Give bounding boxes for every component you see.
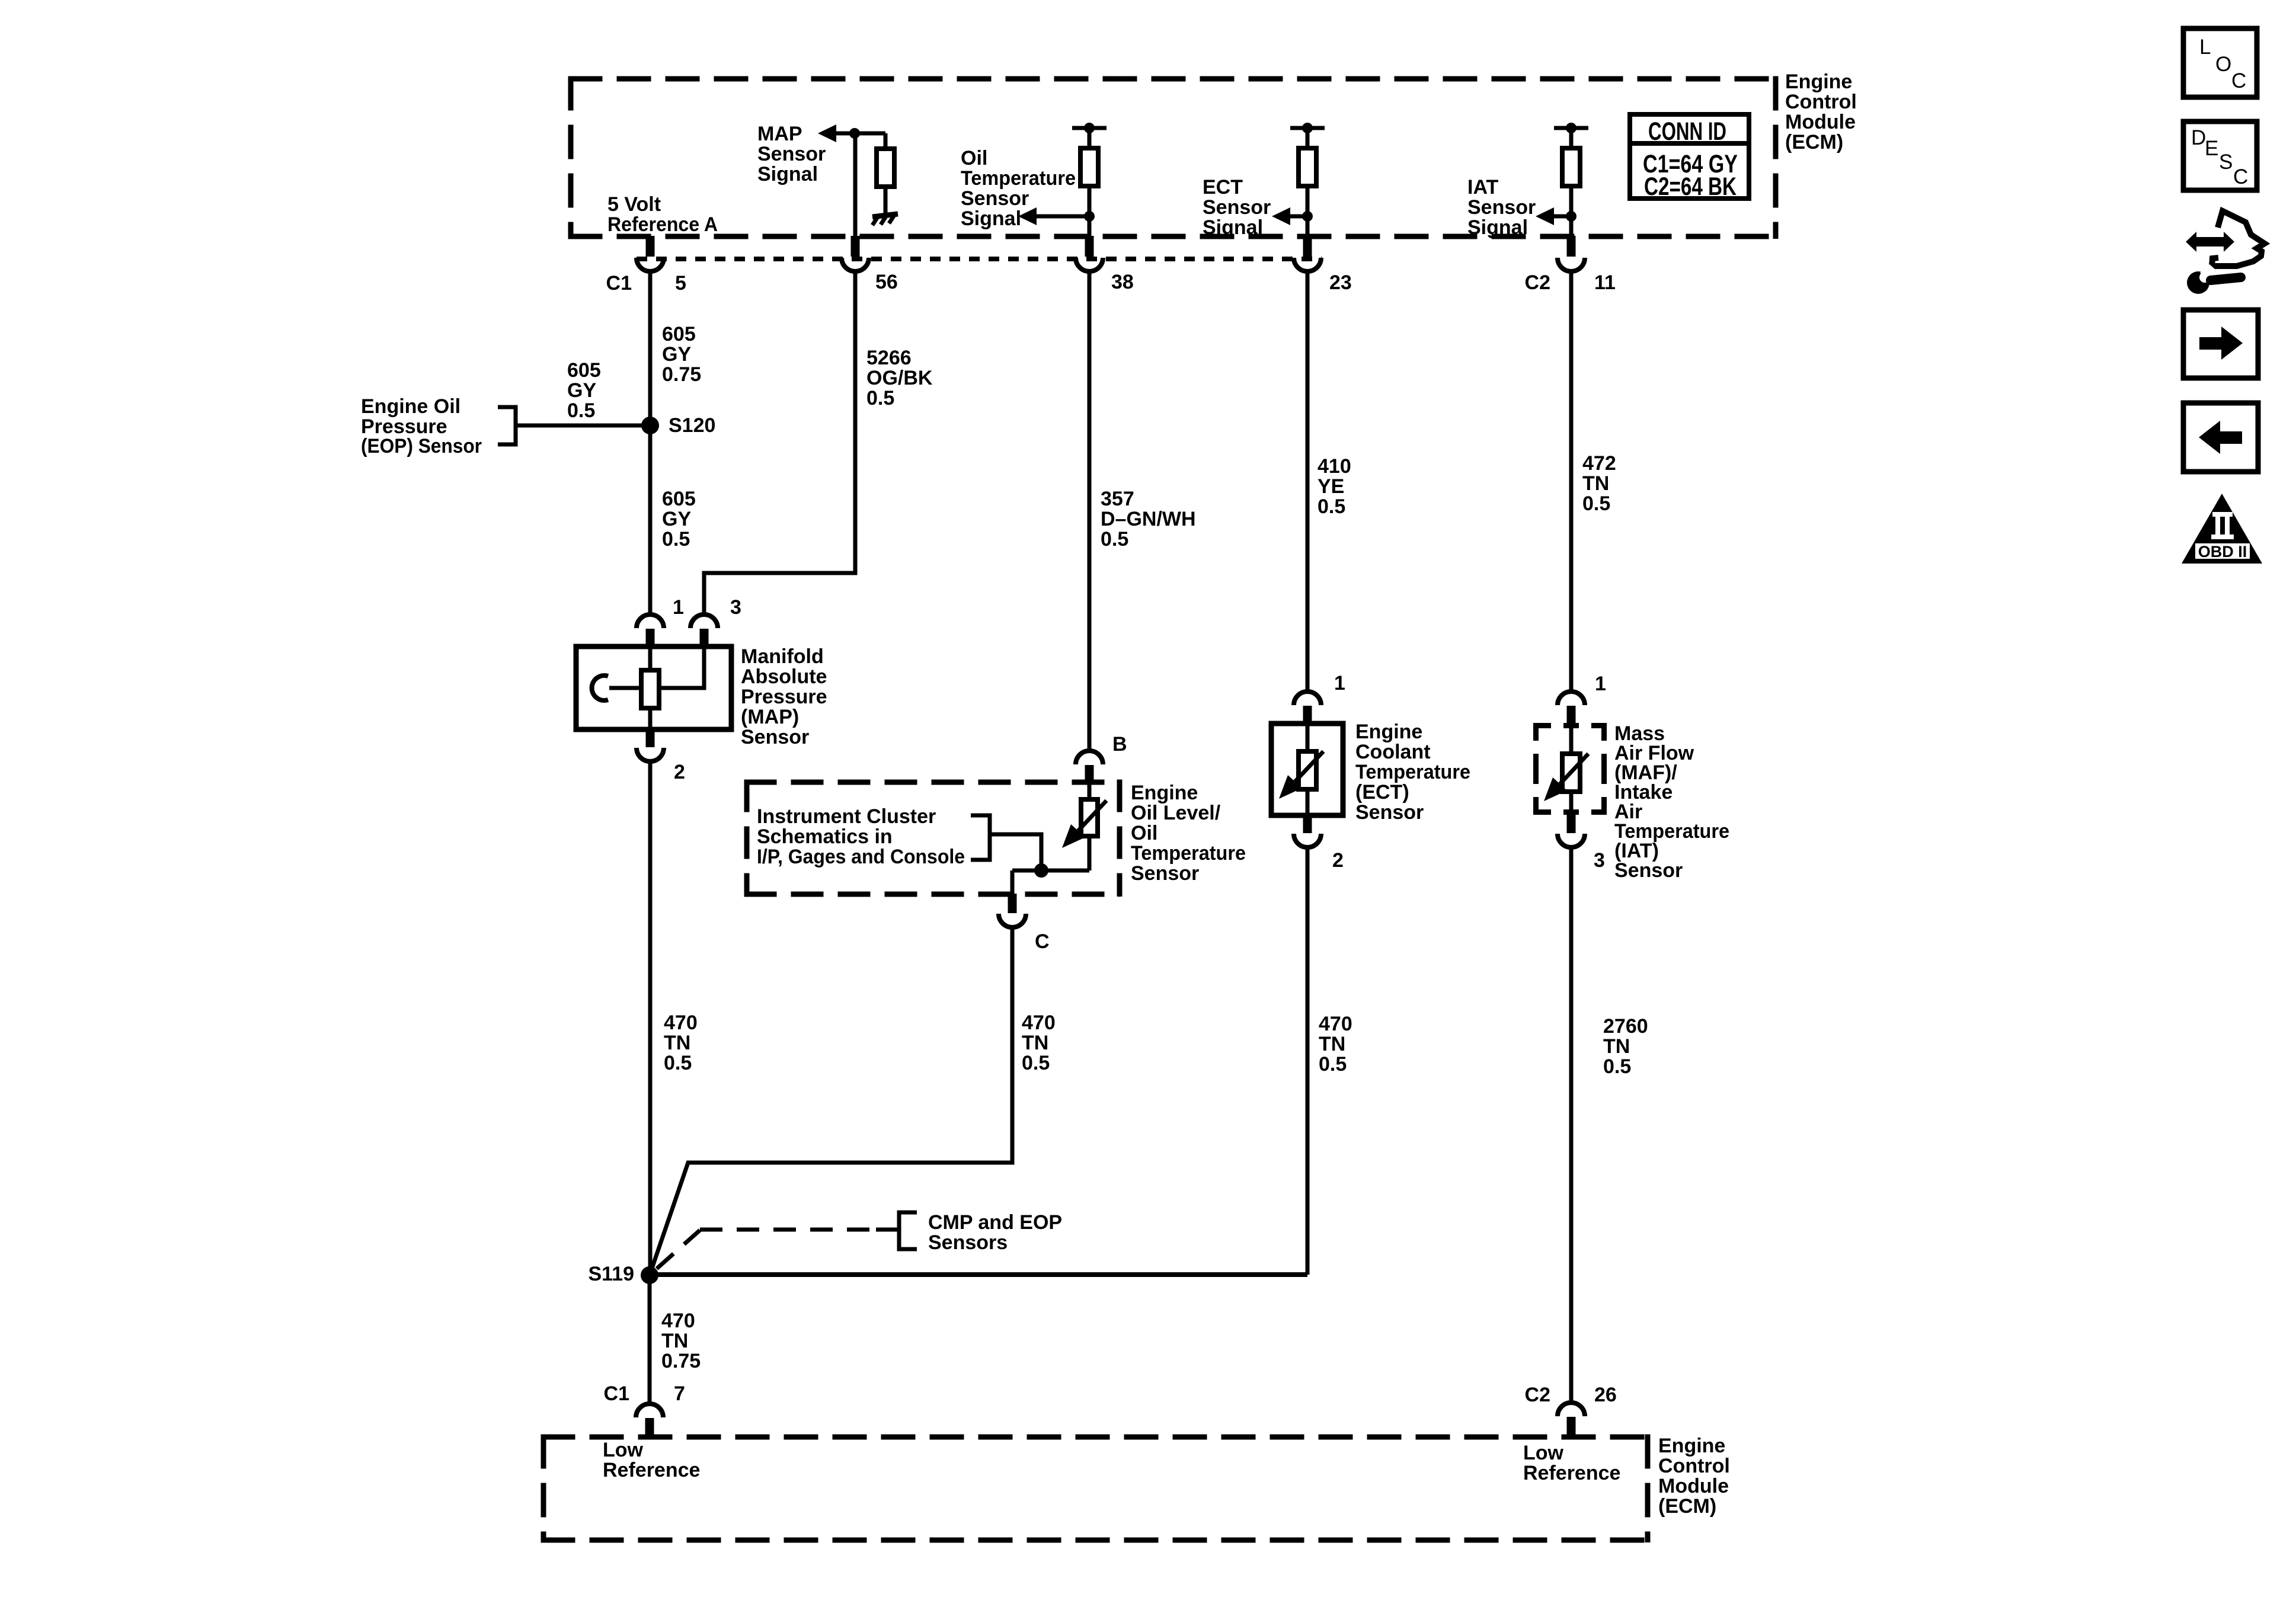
wire: IAT pin 11 vertical [1569, 186, 1574, 237]
svg-text:Engine: Engine [1355, 721, 1422, 743]
svg-text:7: 7 [674, 1382, 685, 1405]
MAF arrowhead [1544, 777, 1567, 801]
svg-text:0.5: 0.5 [1022, 1052, 1050, 1074]
wire: bar to resistor [1088, 128, 1092, 148]
svg-text:Sensor: Sensor [1614, 859, 1683, 882]
C1 connector dotted line [637, 257, 1322, 261]
bracket: EOP sensor [498, 407, 516, 444]
svg-text:C2=64 BK: C2=64 BK [1644, 172, 1737, 201]
svg-text:GY: GY [662, 343, 691, 366]
svg-text:Absolute: Absolute [741, 665, 827, 688]
svg-text:Control: Control [1658, 1455, 1730, 1477]
svg-text:CONN ID: CONN ID [1648, 117, 1726, 146]
svg-text:(EOP) Sensor: (EOP) Sensor [361, 435, 482, 457]
svg-text:605: 605 [662, 488, 696, 510]
C2-26 pin stub [1567, 1417, 1576, 1436]
svg-text:5266: 5266 [866, 347, 912, 369]
svg-text:2760: 2760 [1603, 1015, 1648, 1038]
ECT pin 2 stub [1303, 815, 1312, 833]
CONN ID table [1630, 114, 1749, 199]
svg-text:2: 2 [674, 761, 685, 783]
svg-text:470: 470 [661, 1310, 695, 1332]
svg-text:D: D [2191, 126, 2206, 149]
wire: junction horizontal [1012, 869, 1089, 873]
svg-text:IAT: IAT [1467, 176, 1498, 199]
svg-text:TN: TN [1319, 1033, 1345, 1055]
svg-text:0.5: 0.5 [1318, 495, 1345, 518]
wire: ECT pin 2 down to S119 level [1306, 847, 1310, 1275]
MAP pin stubs [650, 629, 704, 747]
svg-text:605: 605 [567, 359, 601, 382]
svg-text:56: 56 [875, 271, 898, 293]
svg-text:Oil: Oil [1131, 822, 1157, 844]
icon: left arrow box [2183, 403, 2258, 472]
svg-text:MAP: MAP [757, 123, 802, 145]
wire: S119 horizontal to ECT column [650, 1272, 1307, 1277]
svg-text:C1: C1 [604, 1382, 629, 1405]
MAP pin 1 cup [637, 614, 664, 628]
MAF pin 1 stub [1567, 706, 1576, 724]
svg-text:0.5: 0.5 [866, 387, 894, 409]
svg-text:L: L [2199, 36, 2211, 59]
MAP pin 2 cup [637, 748, 664, 761]
svg-text:410: 410 [1318, 455, 1351, 478]
node S120 [641, 417, 659, 434]
wire: B stub to thermistor [1088, 784, 1092, 799]
svg-text:1: 1 [1334, 672, 1345, 694]
oil sensor pin B cup [1076, 751, 1103, 764]
wire: port to resistor [609, 686, 641, 690]
ECT channel: 5V bar [1290, 126, 1325, 130]
MAP sensor box [576, 646, 731, 729]
icon: LOC box [2183, 28, 2257, 97]
wire: oil temp pin 38 vertical [1088, 186, 1092, 237]
svg-text:OBD II: OBD II [2198, 543, 2247, 561]
svg-text:Sensor: Sensor [961, 187, 1029, 210]
wire: pin 11 down to MAF pin 1 [1569, 272, 1574, 692]
MAF pin 3 cup [1558, 834, 1585, 847]
svg-text:GY: GY [662, 508, 691, 530]
MAF pin 3 stub [1567, 814, 1576, 833]
node: ECT bar junction [1302, 123, 1313, 133]
svg-text:Reference: Reference [603, 1459, 700, 1481]
svg-text:C1: C1 [606, 272, 632, 295]
MAP pin 3 cup [690, 614, 718, 628]
wire: pin3 inside box down to element [659, 647, 704, 688]
resistor: ECT pull-up [1299, 148, 1316, 186]
wire: ECT signal line [1289, 215, 1307, 219]
pin stubs ECM top [650, 236, 1571, 257]
resistor: IAT pull-up [1562, 148, 1580, 186]
wire: ECT resistor to box bottom [1306, 789, 1310, 815]
C1-7 pin stub [645, 1418, 654, 1436]
wire: bar to resistor [1306, 128, 1310, 148]
wire: MAF resistor to pin 3 [1569, 792, 1574, 814]
svg-text:(ECM): (ECM) [1658, 1495, 1716, 1518]
arrowhead: ECT sensor signal [1272, 207, 1290, 225]
svg-text:C: C [1035, 930, 1050, 953]
svg-text:5: 5 [675, 272, 686, 295]
bracket: instrument cluster [971, 815, 990, 860]
icon: hotline (car with arrow and wrench) [2186, 211, 2265, 294]
svg-text:Control: Control [1785, 91, 1857, 113]
wire: 5V ref column C1-5 down [648, 270, 653, 614]
svg-text:Schematics in: Schematics in [757, 825, 893, 848]
svg-text:0.5: 0.5 [664, 1052, 692, 1074]
wire: resistor to ground [884, 187, 888, 213]
svg-text:470: 470 [1022, 1012, 1056, 1034]
svg-text:Engine: Engine [1785, 71, 1852, 93]
svg-text:Oil Level/: Oil Level/ [1131, 802, 1221, 824]
resistor: oil temp pull-up [1080, 148, 1098, 186]
wire: MAP signal arrow line [834, 132, 885, 136]
node: ECT signal junction [1302, 211, 1313, 222]
svg-text:Coolant: Coolant [1355, 741, 1431, 763]
svg-text:Instrument Cluster: Instrument Cluster [757, 805, 936, 828]
wire: pin 38 down to oil sensor B [1088, 270, 1092, 751]
svg-text:0.5: 0.5 [1582, 492, 1610, 515]
svg-text:Signal: Signal [757, 163, 818, 185]
IAT channel: 5V bar [1554, 126, 1588, 130]
svg-text:0.5: 0.5 [1101, 528, 1128, 550]
svg-text:Engine: Engine [1131, 782, 1198, 804]
svg-text:1: 1 [1595, 673, 1606, 695]
svg-text:0.5: 0.5 [662, 528, 690, 550]
bracket: CMP and EOP sensors [899, 1212, 917, 1249]
svg-text:470: 470 [1319, 1013, 1352, 1035]
thermistor diagonal line [1078, 801, 1107, 831]
svg-text:3: 3 [730, 596, 741, 619]
arrowhead: MAP sensor signal [818, 124, 836, 142]
svg-text:ECT: ECT [1203, 176, 1243, 199]
svg-text:472: 472 [1582, 452, 1616, 475]
svg-text:0.5: 0.5 [1603, 1055, 1631, 1078]
svg-text:Pressure: Pressure [741, 686, 827, 708]
wire: bar to resistor [1569, 128, 1574, 148]
svg-text:Signal: Signal [961, 207, 1021, 230]
svg-text:38: 38 [1111, 271, 1134, 293]
node: IAT signal junction [1566, 211, 1576, 222]
svg-text:(ECM): (ECM) [1785, 131, 1843, 153]
node: oil sensor junction [1034, 863, 1048, 878]
svg-text:1: 1 [673, 596, 684, 619]
svg-text:TN: TN [1582, 472, 1609, 495]
svg-text:TN: TN [1603, 1035, 1630, 1058]
pin cups ECM top [637, 258, 1585, 271]
svg-text:S: S [2219, 151, 2233, 174]
dashed box: instrument cluster / oil level sensor [744, 780, 1120, 897]
ECT arrowhead [1279, 775, 1302, 799]
svg-text:Low: Low [603, 1439, 644, 1461]
svg-text:GY: GY [567, 379, 596, 402]
ECT diagonal line [1295, 751, 1323, 782]
node: IAT bar junction [1566, 123, 1576, 133]
node: oil temp bar junction [1084, 123, 1095, 133]
svg-text:Sensor: Sensor [757, 143, 826, 165]
svg-text:Signal: Signal [1467, 216, 1528, 239]
ECT sensor box [1271, 724, 1343, 815]
svg-text:E: E [2205, 137, 2218, 160]
svg-text:TN: TN [1022, 1032, 1048, 1054]
wire: stub to CMP bracket [876, 1228, 899, 1232]
wire: MAF pin1 to resistor [1569, 724, 1574, 754]
wire: pin1 into resistor [648, 647, 653, 670]
thermistor arrowhead [1062, 824, 1085, 848]
svg-text:11: 11 [1594, 271, 1616, 294]
svg-text:Sensor: Sensor [741, 726, 809, 748]
svg-text:470: 470 [664, 1012, 698, 1034]
svg-text:(MAP): (MAP) [741, 706, 799, 728]
svg-text:Reference: Reference [1523, 1462, 1620, 1484]
ECT pin 1 stub [1303, 706, 1312, 724]
wire: pin 56 vertical inside ECM [853, 133, 858, 237]
svg-text:Engine Oil: Engine Oil [361, 395, 461, 418]
svg-text:Sensor: Sensor [1131, 862, 1199, 885]
svg-text:Temperature: Temperature [1355, 761, 1470, 783]
wire: MAP pullup branch [884, 133, 888, 149]
svg-text:(ECT): (ECT) [1355, 781, 1409, 804]
oil sensor pin C stub [1008, 894, 1017, 913]
svg-text:D–GN/WH: D–GN/WH [1101, 508, 1196, 530]
resistor: MAP pull-up [877, 149, 894, 187]
wire: EOP sensor horizontal [516, 424, 650, 428]
wire: ECT pin 23 vertical [1306, 186, 1310, 237]
svg-text:2: 2 [1332, 849, 1344, 872]
wire: ECT pin1 to resistor [1306, 724, 1310, 751]
svg-text:Low: Low [1523, 1442, 1564, 1464]
wire: S119 down to C1-7 [648, 1275, 652, 1404]
svg-text:YE: YE [1318, 475, 1344, 498]
icon: right arrow box [2183, 310, 2258, 378]
svg-text:5 Volt: 5 Volt [607, 193, 661, 216]
wire: pin C down, left, diagonal to S119 [650, 927, 1012, 1275]
svg-text:Sensor: Sensor [1203, 196, 1271, 219]
svg-text:3: 3 [1594, 849, 1605, 872]
MAF pin 1 cup [1558, 692, 1585, 705]
svg-text:Manifold: Manifold [741, 645, 824, 668]
icon: OBD II triangle [2182, 494, 2262, 564]
svg-text:B: B [1112, 733, 1127, 756]
MAF dashed box [1536, 726, 1604, 812]
wire: oil temp signal line [1037, 215, 1089, 219]
svg-text:0.5: 0.5 [1319, 1053, 1347, 1076]
svg-text:Sensors: Sensors [928, 1231, 1008, 1254]
svg-text:C2: C2 [1525, 1384, 1550, 1406]
svg-text:Temperature: Temperature [1131, 842, 1246, 865]
dashed wire: CMP and EOP sensors [657, 1230, 876, 1269]
wire: pin 23 down to ECT pin 1 [1306, 270, 1310, 692]
svg-text:C2: C2 [1525, 271, 1550, 294]
svg-text:26: 26 [1594, 1384, 1617, 1406]
arrowhead: IAT sensor signal [1536, 207, 1554, 225]
svg-text:Module: Module [1785, 111, 1856, 133]
svg-text:357: 357 [1101, 488, 1134, 510]
node: MAP signal junction [849, 128, 860, 139]
svg-text:S119: S119 [588, 1263, 634, 1285]
ECM bottom dashed box [541, 1435, 1648, 1543]
svg-text:605: 605 [662, 323, 696, 345]
ECT pin 1 cup [1294, 692, 1321, 705]
svg-text:Sensor: Sensor [1355, 801, 1424, 824]
svg-text:Engine: Engine [1658, 1435, 1725, 1457]
node S119 [641, 1266, 658, 1284]
resistor: ECT element [1299, 751, 1316, 789]
svg-text:Signal: Signal [1203, 216, 1263, 239]
oil temp channel: 5V bar [1072, 126, 1107, 130]
node: oil temp signal junction [1084, 211, 1095, 222]
svg-text:23: 23 [1329, 271, 1352, 294]
svg-text:C: C [2233, 165, 2248, 188]
resistor: MAF IAT element [1562, 754, 1580, 792]
wire: pin 56 down, over to MAP pin 3 [704, 270, 855, 614]
svg-text:O: O [2215, 53, 2231, 76]
svg-text:Oil: Oil [961, 147, 987, 169]
svg-text:Sensor: Sensor [1467, 196, 1536, 219]
MAP pressure port arc [592, 676, 608, 700]
C1-7 pin cup [636, 1404, 663, 1417]
svg-text:TN: TN [661, 1330, 688, 1352]
C2-26 pin cup [1558, 1403, 1585, 1416]
ground symbol [872, 214, 898, 225]
ECT pin 2 cup [1294, 834, 1321, 847]
svg-text:I/P, Gages and Console: I/P, Gages and Console [757, 846, 965, 868]
MAF diagonal line [1560, 754, 1588, 784]
wire: MAP pin 2 down to S119 [648, 761, 653, 1275]
svg-text:0.75: 0.75 [662, 363, 701, 386]
wire: IAT signal line [1553, 215, 1571, 219]
svg-text:Module: Module [1658, 1475, 1729, 1497]
svg-text:0.5: 0.5 [567, 399, 595, 422]
svg-text:S120: S120 [669, 414, 715, 437]
svg-text:C: C [2231, 69, 2246, 92]
wire: resistor to box bottom [648, 708, 653, 729]
svg-text:TN: TN [664, 1032, 690, 1054]
wire: MAF pin 3 down to C2-26 [1569, 847, 1574, 1403]
svg-text:Reference A: Reference A [607, 213, 718, 236]
resistor: MAP element [641, 670, 659, 708]
wire: junction up and left to bracket [990, 834, 1041, 870]
icon: DESC box [2183, 121, 2257, 190]
oil sensor pin B stub [1085, 765, 1094, 784]
resistor: oil level/temp thermistor [1081, 799, 1098, 836]
ECM top dashed box [568, 76, 1776, 239]
arrowhead: oil temp sensor signal [1018, 207, 1037, 225]
svg-text:CMP and EOP: CMP and EOP [928, 1211, 1062, 1234]
wire: junction down to pin C [1011, 870, 1015, 895]
svg-text:Temperature: Temperature [961, 167, 1076, 190]
wire: thermistor bottom [1088, 836, 1092, 870]
svg-text:0.75: 0.75 [661, 1350, 701, 1372]
svg-text:OG/BK: OG/BK [866, 367, 933, 389]
oil sensor pin C cup [999, 914, 1026, 927]
